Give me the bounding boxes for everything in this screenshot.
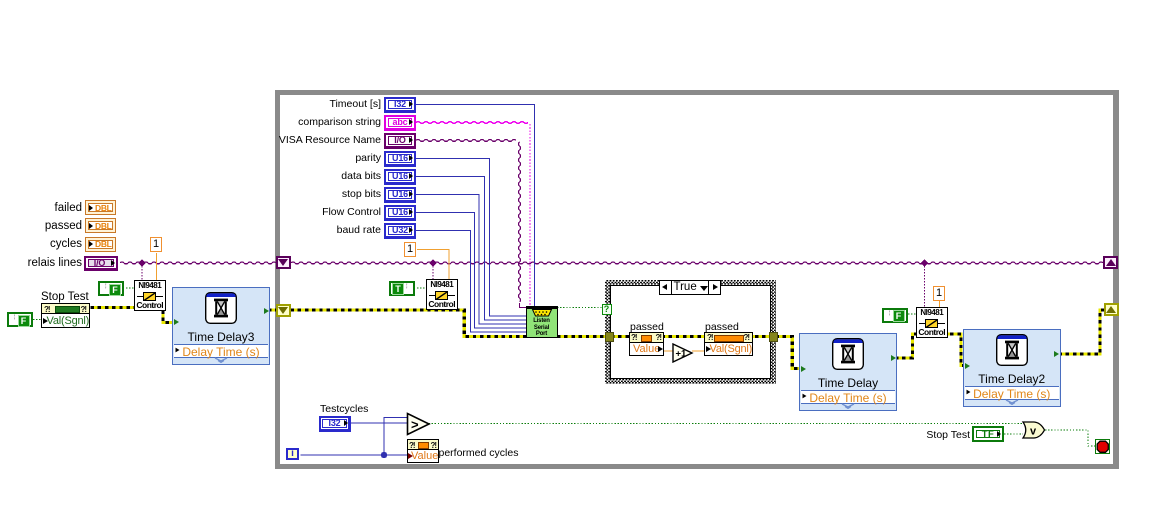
wire data bits xyxy=(416,177,526,321)
label baud rate xyxy=(337,224,381,237)
terminal Stop Test TF xyxy=(972,426,1004,442)
wire greater-than to Or gate xyxy=(429,422,1024,424)
wire Or gate to loop condition xyxy=(1045,430,1095,446)
wire error cluster: Val(Sgnl) to NI9481 Control 1 xyxy=(91,306,135,309)
wire error: case right tunnel to Time Delay xyxy=(776,337,800,369)
case structure xyxy=(605,280,777,385)
node NI9481 Control 3 xyxy=(916,307,948,338)
while loop xyxy=(275,90,1118,469)
wire Testcycles to greater-than xyxy=(351,422,409,424)
terminal parity xyxy=(384,151,416,167)
terminal baud rate xyxy=(384,223,416,239)
terminal Testcycles I32 xyxy=(319,416,351,432)
wire error: left SR through NI9481-2 down to Listen Serial Port xyxy=(291,310,527,337)
label Stop Test (loop) xyxy=(926,429,970,442)
wire Stop Test TF to Or gate xyxy=(1004,433,1023,435)
label passed (left) xyxy=(630,321,664,334)
express VI Time Delay xyxy=(799,333,897,411)
wire error: Time Delay via NI9481-3 to Time Delay2 xyxy=(895,334,964,366)
node Or gate xyxy=(1021,420,1048,440)
svg-text:+1: +1 xyxy=(676,349,688,360)
node property performed cycles Value xyxy=(407,439,439,463)
node greater-than xyxy=(406,412,431,436)
constant 1 for NI9481-2 xyxy=(404,242,416,257)
wire constant 1 to NI9481-2 xyxy=(417,250,449,280)
terminal Flow Control xyxy=(384,205,416,221)
label cycles xyxy=(50,238,82,251)
terminal comparison string xyxy=(384,115,416,131)
wire orange increment passed xyxy=(663,350,705,352)
svg-text:v: v xyxy=(1030,426,1037,438)
label failed xyxy=(55,202,83,215)
label performed cycles xyxy=(439,447,519,460)
subVI Listen Serial Port xyxy=(526,306,558,338)
constant boolean F near Val(Sgnl) xyxy=(7,312,33,327)
wire error: inside case structure xyxy=(611,335,770,338)
wire constant 1 to NI9481-3 xyxy=(939,301,941,307)
wire constant 1 to NI9481-1 xyxy=(156,253,158,280)
terminal loop condition stop xyxy=(1095,439,1111,455)
label comparison string xyxy=(298,116,381,129)
wire error: Time Delay3 to left shift register xyxy=(268,308,276,311)
label relais lines xyxy=(28,257,82,270)
shift register relais right xyxy=(1103,256,1118,269)
label VISA Resource Name xyxy=(279,134,381,147)
shift register relais left xyxy=(276,256,291,269)
label Flow Control xyxy=(322,206,381,219)
wire F constant to NI9481-1 xyxy=(126,287,134,289)
terminal VISA Resource Name xyxy=(384,133,416,149)
node NI9481 Control 2 xyxy=(426,279,458,310)
label Testcycles xyxy=(320,403,368,416)
node increment +1 xyxy=(672,343,694,363)
terminal relais lines I/O xyxy=(84,256,118,271)
wire parity xyxy=(416,159,526,317)
shift register error left xyxy=(276,304,291,317)
constant 1 for NI9481-1 xyxy=(150,237,162,252)
wire Timeout [s] I32 xyxy=(416,105,535,307)
wire Flow Control xyxy=(416,213,526,329)
wire error: Time Delay2 to right shift register xyxy=(1059,310,1105,354)
wire F constant to NI9481-3 xyxy=(908,313,916,315)
wire i to Value node and greater-than xyxy=(301,454,408,456)
terminal stop bits xyxy=(384,187,416,203)
wire Listen Serial Port to case selector xyxy=(557,307,602,309)
wire comparison string to Listen Serial Port xyxy=(416,122,528,124)
wire baud rate xyxy=(416,231,526,333)
express VI Time Delay3 xyxy=(172,287,270,365)
terminal loop iteration i xyxy=(286,448,299,461)
tunnel case selector ? xyxy=(602,304,612,315)
node local variable passed Value xyxy=(629,332,664,357)
wire F constant to Val(Sgnl) xyxy=(33,319,42,321)
tunnel case error right xyxy=(769,332,778,342)
terminal indicator failed xyxy=(85,200,116,215)
label parity xyxy=(355,152,381,165)
shift register error right xyxy=(1104,303,1119,316)
wire stop bits xyxy=(416,195,526,325)
junction dot on i wire xyxy=(381,452,387,458)
label passed xyxy=(45,220,82,233)
wire relais lines (I/O) to left shift register xyxy=(120,262,276,264)
terminal Timeout [s] xyxy=(384,97,416,113)
terminal indicator cycles xyxy=(85,237,116,252)
junction on relais wire at NI9481-2 xyxy=(429,259,436,266)
constant boolean T near NI9481-2 xyxy=(389,281,415,296)
terminal data bits xyxy=(384,169,416,185)
wire relais lines inside loop to right shift register xyxy=(291,262,1103,264)
tunnel case error left xyxy=(605,332,614,342)
terminal indicator passed xyxy=(85,218,116,233)
junction on relais wire at NI9481-1 xyxy=(138,259,145,266)
label stop bits xyxy=(342,188,381,201)
node NI9481 Control 1 xyxy=(134,280,166,311)
label passed (right) xyxy=(705,321,739,334)
constant boolean F near NI9481-1 xyxy=(98,281,124,296)
junction on relais wire at NI9481-3 xyxy=(921,259,928,266)
case selector label "True" xyxy=(659,280,721,295)
label data bits xyxy=(341,170,381,183)
wire error: Listen Serial Port to case left tunnel xyxy=(557,335,606,338)
node property passed Val(Sgnl) xyxy=(704,332,753,357)
wire error: NI9481-1 to Time Delay3 xyxy=(163,311,172,323)
constant 1 for NI9481-3 xyxy=(933,286,945,301)
svg-text:>: > xyxy=(411,417,419,432)
constant boolean F near NI9481-3 xyxy=(882,308,908,323)
node Stop Test Val(Sgnl) property xyxy=(41,303,90,328)
label Timeout [s] xyxy=(329,98,381,111)
label Stop Test xyxy=(41,291,89,304)
wire VISA Resource Name to Listen Serial Port xyxy=(416,140,516,142)
wire T constant to NI9481-2 xyxy=(417,287,426,289)
express VI Time Delay2 xyxy=(963,329,1061,407)
